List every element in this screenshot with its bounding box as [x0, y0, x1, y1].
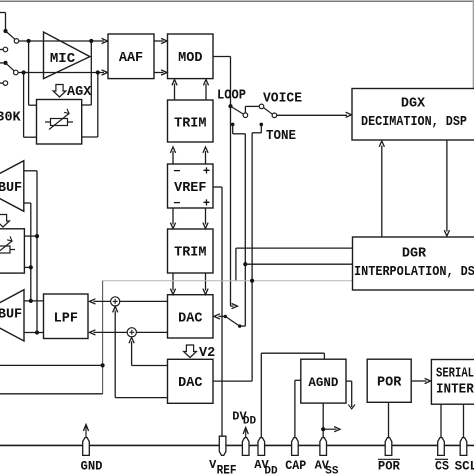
node LOOP junction: [228, 104, 232, 108]
wire LPF out 1: [24, 300, 44, 302]
svg-text:+: +: [203, 165, 210, 179]
wire MIC row 1: [19, 40, 104, 42]
wire AGX feedback left bottom: [23, 73, 25, 138]
wire DGX to DGR: [446, 140, 448, 232]
svg-text:INTERFACE: INTERFACE: [436, 383, 474, 398]
svg-text:30K: 30K: [0, 111, 22, 126]
svg-text:DD: DD: [243, 415, 257, 427]
wire substrate rail: [0, 444, 474, 446]
block DGR interpolation DSP: [353, 237, 474, 290]
wire VREF output to pin: [213, 186, 222, 188]
wire TRIM to MOD arrows: [174, 84, 176, 101]
node TONE contact 2: [260, 123, 264, 127]
wire AGND ground chevron: [346, 380, 352, 382]
op-amp BUF 2: [0, 290, 24, 341]
block DGX decimation DSP: [352, 89, 474, 141]
pin CAP: [292, 438, 299, 456]
svg-text:DGR: DGR: [402, 247, 427, 262]
wire attenuator taps: [24, 235, 37, 237]
switch arm DAC input: [240, 325, 246, 327]
wire summer1 to LPF: [94, 300, 111, 302]
svg-text:TRIM: TRIM: [174, 246, 206, 261]
pin DVDD: [242, 438, 249, 456]
block TRIM (rx): [168, 229, 214, 273]
wire TRIM2 to DAC arrows: [172, 273, 174, 291]
wire DGR input 2: [243, 262, 247, 266]
wire: [472, 1, 474, 88]
summer 2: [127, 328, 136, 337]
block TRIM (tx): [168, 100, 214, 142]
pin AVSS: [320, 438, 327, 456]
svg-text:CS: CS: [435, 459, 449, 474]
svg-text:DECIMATION, DSP: DECIMATION, DSP: [361, 115, 467, 130]
svg-text:MOD: MOD: [178, 51, 202, 66]
summer 1: [111, 297, 120, 306]
block DAC 1: [168, 295, 214, 338]
block VREF: [168, 164, 214, 208]
svg-text:BUF: BUF: [0, 181, 22, 196]
svg-text:DAC: DAC: [178, 312, 202, 327]
wire to VOICE switch: [244, 106, 246, 112]
resistor attenuator box: [0, 229, 24, 273]
svg-text:SCLK: SCLK: [455, 459, 474, 474]
svg-text:GND: GND: [81, 459, 103, 474]
wire external left 2: [0, 393, 103, 395]
wire AAF to MOD 2: [154, 72, 164, 74]
V2 reference arrow: [184, 345, 197, 358]
svg-text:AGND: AGND: [308, 376, 339, 390]
svg-text:DAC: DAC: [178, 376, 202, 391]
svg-text:VREF: VREF: [174, 181, 206, 196]
pin VREF: [219, 436, 226, 455]
wire summer2 to LPF: [94, 331, 128, 333]
wire AGX feedback right top: [82, 104, 92, 106]
svg-text:TONE: TONE: [266, 129, 296, 144]
svg-text:SS: SS: [325, 465, 339, 474]
pin CS-bar: [438, 438, 445, 456]
wire DGR input 1: [236, 247, 353, 249]
wire sidetone net down: [251, 133, 253, 381]
wire AGX feedback right bottom: [82, 136, 98, 138]
svg-text:−: −: [173, 165, 180, 179]
pin GND: [83, 438, 90, 456]
wire MIC row 2: [18, 72, 104, 74]
block POR: [367, 359, 411, 402]
node TONE contact 1: [231, 123, 235, 127]
svg-text:TRIM: TRIM: [174, 117, 206, 132]
wire DAC1 out lower: [136, 331, 167, 333]
wire DAC2 output right: [213, 380, 252, 382]
op-amp MIC: [44, 32, 90, 79]
svg-text:AGX: AGX: [67, 85, 92, 100]
wire DAC1 out upper: [120, 300, 168, 302]
wire tone net down: [244, 134, 246, 326]
wire MOD output: [213, 56, 231, 58]
svg-text:INTERPOLATION, DSP: INTERPOLATION, DSP: [354, 265, 474, 280]
svg-text:DGX: DGX: [401, 97, 426, 112]
svg-text:POR: POR: [377, 376, 402, 391]
wire gray net to DGR: [103, 280, 353, 282]
AGX gain-set arrow: [53, 85, 66, 98]
wire AGX feedback left top: [28, 41, 30, 105]
svg-text:DD: DD: [264, 465, 278, 474]
attenuator control arrow: [0, 215, 9, 228]
block AAF anti-alias filter: [108, 34, 154, 79]
block SERIAL INTERFACE: [431, 360, 474, 405]
svg-text:LOOP: LOOP: [217, 89, 246, 104]
pin POR-bar: [385, 438, 392, 456]
svg-text:MIC: MIC: [50, 51, 76, 67]
op-amp BUF 1: [0, 161, 24, 212]
svg-text:−: −: [173, 197, 180, 211]
svg-text:SERIAL: SERIAL: [436, 367, 474, 382]
wire buf net A: [36, 171, 38, 333]
node MIC input select 1: [0, 12, 6, 14]
node input stub 2: [0, 49, 3, 51]
wire DAC2 upper feed to summer2: [131, 341, 133, 365]
svg-text:REF: REF: [217, 463, 237, 474]
wire gray net down: [102, 281, 104, 394]
wire LPF out 2: [24, 332, 44, 334]
svg-text:CAP: CAP: [285, 458, 306, 473]
svg-text:AAF: AAF: [119, 51, 143, 66]
wire switch to DGX: [277, 114, 347, 116]
node MIC input select 2: [0, 62, 3, 64]
pin AVDD: [258, 438, 265, 456]
wire VREF to TRIM2 arrows: [172, 208, 174, 225]
pin SCLK: [460, 438, 467, 456]
wire POR to SERIAL arrow: [411, 380, 426, 382]
block LPF: [44, 294, 89, 339]
node input stub 4: [0, 82, 3, 84]
wire external left 1: [0, 364, 103, 366]
block DAC 2: [168, 359, 214, 403]
wire AAF to MOD 1: [154, 40, 164, 42]
switch arm VOICE: [263, 108, 272, 115]
block AGND: [301, 359, 346, 403]
svg-text:+: +: [203, 197, 210, 211]
svg-text:POR: POR: [378, 459, 400, 474]
wire loop arrow: [231, 305, 234, 307]
resistor 30K AGX-controlled box: [37, 100, 82, 145]
switch arm LOOP: [231, 106, 244, 114]
svg-text:VOICE: VOICE: [263, 92, 302, 107]
svg-text:BUF: BUF: [0, 308, 22, 323]
svg-text:LPF: LPF: [54, 312, 78, 327]
wire DAC2 lower feed to summer1: [114, 311, 116, 398]
wire VREF to TRIM arrows: [172, 151, 174, 164]
block MOD sigma-delta modulator: [168, 34, 214, 79]
wire DGR to DGX: [381, 146, 383, 238]
wire buf net B: [30, 203, 32, 301]
wire: [0, 0, 474, 2]
